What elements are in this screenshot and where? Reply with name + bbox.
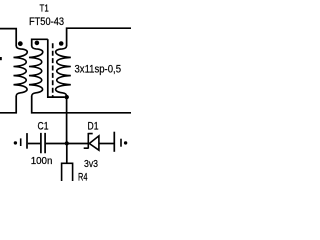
- svg-text:3v3: 3v3: [84, 159, 98, 170]
- resistor R4: [62, 163, 73, 182]
- svg-text:3x11sp-0,5: 3x11sp-0,5: [75, 63, 122, 75]
- transformer T1 winding B: [29, 46, 43, 97]
- capacitor plate left of wire: [26, 133, 28, 149]
- wire: winding B top: [32, 39, 48, 46]
- capacitor plate (cropped, left): [20, 138, 22, 146]
- wire: winding B bottom to right edge bus: [32, 96, 131, 113]
- wire stub at left edge: [0, 57, 2, 60]
- wire node to D1: [67, 143, 88, 145]
- polarity dot winding C: [59, 41, 64, 46]
- svg-text:T1: T1: [40, 4, 50, 15]
- wire: winding A bottom to left edge: [0, 96, 16, 113]
- wire: winding C top to right edge: [67, 28, 131, 46]
- wire: node down to C1/D1 row: [66, 96, 68, 144]
- diode D1 triangle: [89, 136, 99, 150]
- svg-text:C1: C1: [38, 121, 49, 133]
- capacitor C1: [41, 133, 45, 153]
- capacitor plate (cropped, right): [120, 139, 122, 147]
- wire node down to R4: [66, 144, 68, 164]
- node: C1/D1/R4 junction: [65, 141, 69, 145]
- wire: left edge to winding A top: [0, 29, 16, 47]
- wire C1 to node: [46, 143, 67, 145]
- polarity dot winding A: [18, 41, 23, 46]
- svg-text:R4: R4: [78, 171, 88, 181]
- polarity dot winding B: [35, 41, 40, 46]
- node dot (cropped, left edge): [14, 141, 17, 144]
- svg-text:FT50-43: FT50-43: [29, 16, 64, 28]
- capacitor plate (right): [113, 132, 115, 152]
- core line (dashed): [52, 43, 54, 97]
- transformer T1 winding C: [56, 46, 71, 97]
- node: winding B/C junction: [65, 95, 69, 99]
- wire to C1: [28, 143, 40, 145]
- wire D1 to right capacitor: [99, 143, 114, 145]
- svg-text:100n: 100n: [31, 155, 53, 167]
- diode D1 zener cathode bar: [84, 133, 93, 149]
- node dot (cropped, right edge): [124, 141, 127, 144]
- wire: winding B top down to node: [48, 39, 65, 97]
- svg-text:D1: D1: [88, 120, 99, 132]
- transformer T1 winding A: [14, 46, 28, 97]
